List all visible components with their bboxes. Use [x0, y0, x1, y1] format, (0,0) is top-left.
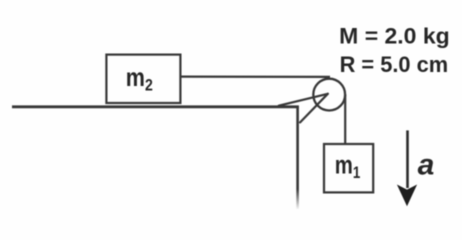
svg-text:R = 5.0 cm: R = 5.0 cm — [340, 52, 449, 77]
svg-text:a: a — [418, 148, 435, 181]
svg-text:M = 2.0 kg: M = 2.0 kg — [339, 23, 450, 48]
